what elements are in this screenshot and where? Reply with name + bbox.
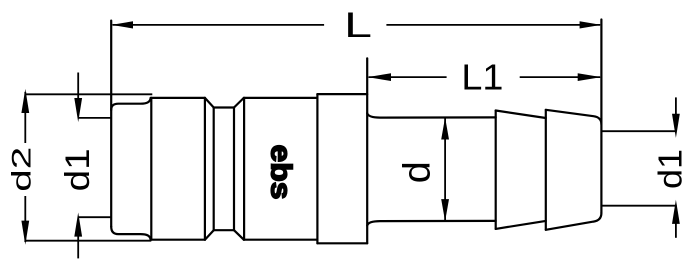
wire body bottom (244, 239, 318, 241)
wire d2 extension line bottom (25, 240, 151, 242)
node d arrow down (441, 199, 449, 221)
wire stem bottom (367, 221, 496, 226)
wire d2 dimension line lower (24, 196, 26, 242)
wire groove chamfer top-left (205, 98, 214, 108)
wire L1 dimension line left segment (369, 76, 447, 78)
wire barb2 slope top (546, 110, 602, 124)
node d1 right arrow down (672, 114, 680, 138)
wire groove bottom (214, 229, 234, 231)
svg-text:d: d (396, 161, 438, 183)
wire barb1 slope top (496, 111, 546, 119)
wire d1 right dimension line lower (675, 222, 677, 238)
wire d1 left extension top (78, 117, 110, 119)
wire d1 right dimension line upper (675, 97, 677, 116)
wire tip outline bottom (111, 227, 150, 240)
node L1 arrow left (368, 73, 392, 81)
node barb1 face (495, 111, 497, 229)
node sleeve right face (204, 98, 206, 240)
node d1 right arrow up (672, 200, 680, 224)
wire body top (244, 97, 318, 99)
node flange left edge (316, 94, 318, 243)
node L1 arrow right (578, 73, 602, 81)
node body left face (243, 98, 245, 240)
svg-text:ebs: ebs (264, 145, 296, 200)
node d arrow up (441, 117, 449, 139)
wire d1 right extension top (602, 130, 677, 132)
svg-text:d2: d2 (7, 147, 37, 192)
svg-text:L1: L1 (461, 57, 503, 98)
node sleeve left edge (150, 98, 152, 240)
node L arrow left (111, 21, 133, 28)
wire groove chamfer top-right (234, 98, 244, 108)
wire L1 dimension line right segment (520, 76, 601, 78)
node groove right edge (233, 108, 235, 231)
wire stem top (367, 113, 496, 117)
wire flange top (317, 93, 367, 95)
node d2 arrow down (21, 221, 29, 245)
svg-text:d1: d1 (59, 148, 97, 191)
node stem end face with L extension (600, 20, 602, 213)
wire L dimension line right segment (386, 24, 600, 26)
wire d dimension line (444, 117, 446, 221)
wire sleeve top (151, 97, 205, 99)
wire barb1 slope bottom (496, 221, 546, 229)
svg-text:d1: d1 (651, 149, 688, 189)
wire d2 dimension line upper (24, 92, 26, 143)
wire tip outline top (111, 98, 150, 110)
wire tip left face (110, 21, 112, 227)
node L arrow right (580, 21, 602, 28)
node d1 left arrow up (74, 213, 82, 237)
wire d1 left extension bottom (78, 216, 111, 218)
node d1 left arrow down (74, 98, 82, 122)
svg-text:L: L (344, 6, 372, 45)
wire flange bottom (317, 242, 367, 244)
wire d1 left dimension line upper (77, 73, 79, 101)
wire d2 extension line top (26, 93, 152, 95)
wire sleeve bottom (151, 239, 205, 241)
wire groove chamfer bottom-right (234, 230, 244, 240)
wire d1 left dimension line lower (77, 235, 79, 258)
wire L dimension line left segment (113, 24, 325, 26)
wire groove top (214, 106, 234, 108)
wire barb2 slope bottom (546, 213, 602, 230)
node groove left edge (213, 108, 215, 231)
node d2 arrow up (21, 89, 29, 113)
node barb2 face (545, 110, 547, 230)
node flange right edge with L1 extension (366, 58, 368, 243)
wire groove chamfer bottom-left (205, 230, 214, 240)
wire d1 right extension bottom (602, 205, 677, 207)
